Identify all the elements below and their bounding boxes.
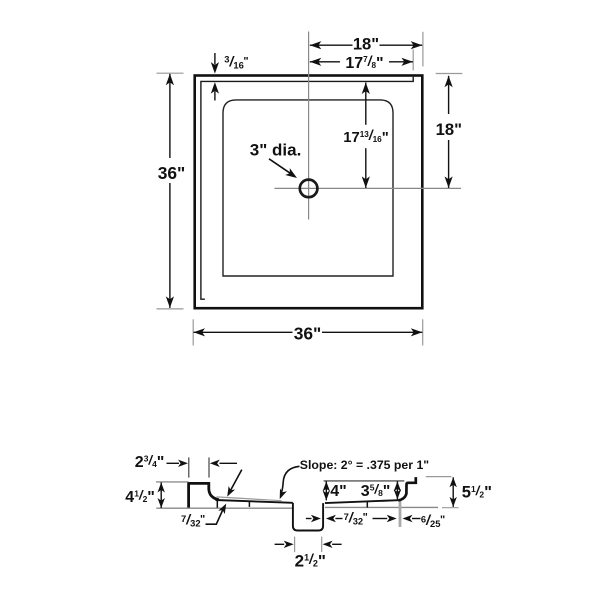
- extension line right of 18 top: [422, 32, 424, 67]
- dimension 17-13/16: [365, 83, 367, 125]
- svg-text:177/8": 177/8": [345, 53, 383, 72]
- gray extension band at right wall: [399, 501, 402, 527]
- svg-text:41/2": 41/2": [125, 488, 155, 506]
- extension lines 36 bottom: [192, 319, 194, 345]
- dimension 36 left: [169, 74, 171, 158]
- svg-text:7/32": 7/32": [344, 509, 368, 527]
- dimension 17-7/8 top: [310, 61, 340, 63]
- horizontal centerline: [275, 187, 462, 189]
- svg-text:36": 36": [158, 163, 186, 183]
- svg-text:4": 4": [330, 483, 346, 500]
- svg-text:23/4": 23/4": [135, 452, 165, 470]
- svg-text:7/32": 7/32": [181, 511, 205, 529]
- drain circle: [300, 180, 318, 198]
- tiling lip line (top + left): [201, 77, 413, 299]
- svg-text:36": 36": [294, 324, 322, 344]
- svg-text:3" dia.: 3" dia.: [250, 140, 302, 159]
- extension ticks 36 left: [157, 72, 184, 74]
- svg-text:6/25": 6/25": [421, 512, 445, 530]
- dimension 18 right: [448, 76, 450, 114]
- outer square 36x36: [195, 76, 423, 309]
- svg-text:18": 18": [436, 120, 462, 139]
- floor tick 3: [366, 502, 368, 508]
- svg-text:21/2": 21/2": [295, 551, 326, 570]
- basin rounded rect: [223, 100, 393, 276]
- dimension 4 (right of trough): [324, 480, 405, 482]
- right floor bottom line (gray): [325, 506, 438, 508]
- dimension 2-1/2: [294, 537, 296, 553]
- floor tick 1: [216, 500, 218, 508]
- dimension 36 bottom: [194, 331, 293, 333]
- svg-text:1713/16": 1713/16": [343, 128, 388, 147]
- dimension 18 top: [310, 44, 353, 46]
- extension line 17-7/8: [412, 50, 414, 71]
- vertical centerline: [308, 32, 310, 220]
- dimension 7/32 right: [306, 518, 312, 520]
- floor tick 2: [248, 502, 250, 507]
- left floor top line: [216, 500, 293, 503]
- left floor slope line (gray): [217, 497, 282, 501]
- svg-text:18": 18": [353, 35, 379, 54]
- right wall profile: [398, 477, 416, 500]
- diagonal leader arrow to floor: [230, 470, 242, 492]
- left floor bottom line (gray): [156, 507, 292, 509]
- drain trough: [293, 503, 323, 531]
- dimension 5-1/2: [426, 476, 452, 478]
- left wall profile: [189, 483, 219, 507]
- extension tick right 18 top: [436, 73, 463, 75]
- dimension 3/16 top-left: [214, 53, 216, 65]
- svg-text:3/16": 3/16": [224, 53, 248, 71]
- right floor top line: [325, 500, 399, 503]
- svg-text:35/8": 35/8": [361, 482, 391, 500]
- dimension 6/25: [403, 515, 413, 522]
- slope curved leader: [281, 466, 300, 495]
- svg-text:Slope: 2° = .375 per 1": Slope: 2° = .375 per 1": [300, 458, 430, 472]
- svg-text:51/2": 51/2": [462, 483, 492, 501]
